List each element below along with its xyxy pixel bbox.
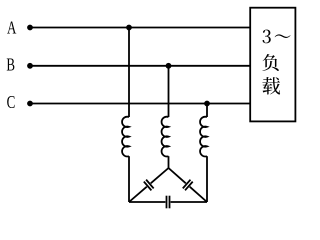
wire delta edge to C1 bbox=[129, 187, 147, 202]
label 载 bbox=[262, 77, 280, 94]
wire phase C bbox=[30, 103, 250, 105]
capacitor C1 bbox=[144, 182, 152, 191]
inductor L3 bbox=[200, 117, 207, 157]
terminal dot phase C bbox=[27, 101, 33, 107]
capacitor C2 bbox=[183, 180, 191, 189]
terminal dot phase B bbox=[27, 63, 33, 69]
svg-text:A: A bbox=[7, 18, 17, 38]
label ~ bbox=[275, 34, 291, 38]
svg-text:B: B bbox=[6, 55, 15, 75]
terminal dot phase A bbox=[27, 25, 33, 31]
inductor L2 bbox=[162, 117, 169, 157]
load box bbox=[250, 8, 295, 122]
inductor L1 bbox=[122, 117, 129, 157]
wire tap A down bbox=[128, 28, 130, 118]
junction node A bbox=[126, 25, 132, 31]
wire phase A bbox=[30, 27, 250, 29]
wire delta bottom bbox=[129, 201, 165, 203]
wire L3 to delta bbox=[206, 156, 208, 202]
junction node B bbox=[166, 63, 172, 69]
wire phase B bbox=[30, 65, 250, 67]
label 3 bbox=[263, 30, 271, 44]
wire tap B down bbox=[168, 66, 170, 117]
wire delta edge to C2 bbox=[169, 168, 186, 183]
wire tap C down bbox=[206, 104, 208, 118]
wire L1 to delta bbox=[128, 156, 130, 202]
label 负 bbox=[262, 54, 278, 71]
wire L2 to delta apex bbox=[168, 156, 170, 168]
svg-text:C: C bbox=[7, 93, 16, 113]
junction node C bbox=[204, 101, 210, 107]
capacitor C3 bbox=[166, 196, 168, 209]
